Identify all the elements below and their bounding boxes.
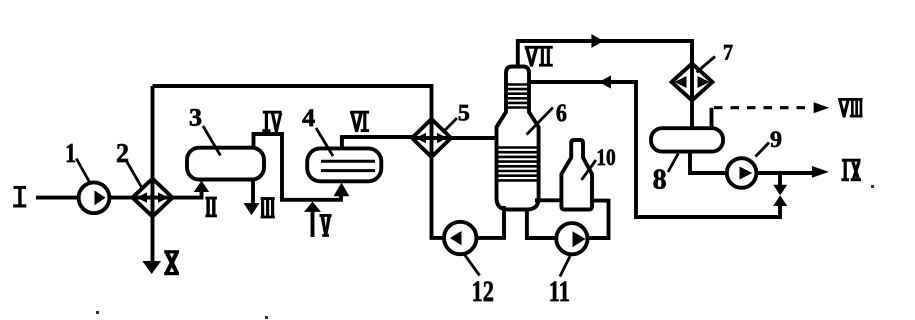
svg-text:3: 3 (189, 104, 202, 131)
svg-text:11: 11 (549, 275, 570, 308)
svg-text:2: 2 (116, 138, 129, 168)
svg-text:8: 8 (653, 164, 667, 196)
svg-text:5: 5 (458, 101, 470, 126)
svg-text:12: 12 (472, 275, 494, 308)
svg-text:6: 6 (556, 100, 567, 127)
svg-text:9: 9 (770, 127, 782, 152)
svg-text:1: 1 (65, 138, 76, 168)
svg-text:10: 10 (596, 145, 615, 170)
svg-text:7: 7 (723, 40, 733, 65)
svg-text:4: 4 (302, 105, 316, 132)
